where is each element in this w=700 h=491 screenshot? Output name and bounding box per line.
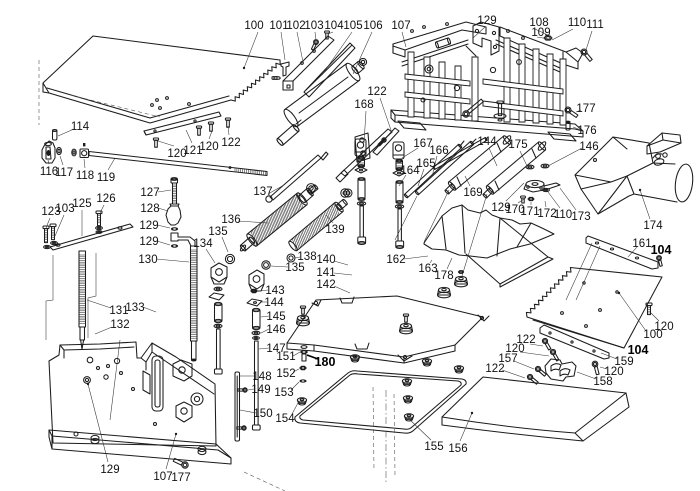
- label 155: [408, 418, 444, 453]
- roller 166: [415, 139, 476, 195]
- svg-text:134: 134: [193, 238, 213, 250]
- bracket 168: [355, 133, 370, 162]
- frame 107 body: [391, 22, 583, 141]
- label 120: [600, 366, 624, 378]
- sleeve 134s: [215, 302, 223, 322]
- label 129: [473, 15, 497, 38]
- gib strip 150: [235, 372, 240, 441]
- nut 143: [251, 289, 257, 292]
- svg-text:156: 156: [448, 443, 467, 455]
- svg-text:128: 128: [140, 203, 159, 215]
- roller 165: [404, 141, 464, 198]
- crank rod 129/130 top: [171, 233, 195, 246]
- svg-text:144: 144: [264, 297, 284, 309]
- screw 122d: [542, 338, 551, 350]
- label 122: [485, 363, 525, 378]
- svg-text:151: 151: [276, 351, 295, 363]
- svg-text:110: 110: [568, 17, 586, 29]
- knife bar 159: [540, 325, 609, 359]
- washer 129a: [171, 227, 178, 230]
- threaded post 131: [79, 251, 86, 349]
- knife bar 121: [144, 112, 221, 135]
- svg-text:145: 145: [266, 311, 285, 323]
- label 136: [221, 214, 268, 226]
- label 157: [498, 353, 534, 369]
- svg-text:153: 153: [274, 387, 293, 399]
- screw 127: [171, 178, 178, 204]
- label 161: [628, 238, 652, 257]
- svg-text:176: 176: [577, 125, 596, 137]
- svg-text:162: 162: [386, 254, 405, 266]
- label 146: [548, 141, 599, 166]
- svg-text:161: 161: [632, 238, 651, 250]
- label 107: [391, 20, 410, 47]
- svg-text:142: 142: [316, 279, 335, 291]
- label 111: [586, 19, 604, 50]
- screw 157s: [535, 366, 546, 376]
- mount 163b: [438, 287, 451, 297]
- label 151: [276, 351, 300, 363]
- label 118: [76, 159, 94, 182]
- cover plate 105: [304, 43, 355, 97]
- ring 135a: [225, 254, 234, 263]
- label 127: [140, 187, 171, 199]
- label 110: [548, 192, 572, 221]
- svg-text:105: 105: [343, 20, 362, 32]
- svg-text:144: 144: [477, 136, 497, 148]
- foot 155c: [404, 414, 413, 421]
- washer 117a: [57, 147, 62, 154]
- svg-text:136: 136: [221, 214, 240, 226]
- washer 138b: [341, 189, 349, 197]
- label 100: [619, 293, 663, 341]
- svg-text:140: 140: [316, 254, 335, 266]
- label 134: [193, 238, 215, 263]
- svg-text:130: 130: [138, 254, 157, 266]
- svg-text:129: 129: [477, 15, 496, 27]
- screw 104a: [325, 31, 330, 39]
- svg-text:164: 164: [400, 165, 420, 177]
- label 162: [386, 254, 428, 266]
- svg-text:178: 178: [434, 270, 453, 282]
- leader 180 bold: [307, 355, 318, 359]
- svg-text:177: 177: [171, 472, 190, 484]
- label 171: [520, 202, 539, 218]
- label 166: [429, 145, 448, 177]
- svg-text:152: 152: [276, 368, 295, 380]
- label 114: [58, 121, 90, 136]
- label 120: [505, 343, 549, 356]
- svg-text:120: 120: [199, 141, 218, 153]
- washer 129r: [526, 165, 534, 169]
- label 142: [316, 279, 350, 293]
- stud 180: [300, 346, 308, 361]
- washer ring left: [344, 189, 352, 197]
- screw 122a: [225, 118, 230, 127]
- svg-text:173: 173: [571, 211, 590, 223]
- bolt 111: [581, 49, 592, 61]
- screw 149a: [238, 388, 247, 392]
- rod 119: [89, 152, 267, 176]
- label 158: [577, 372, 613, 388]
- label 163: [418, 260, 437, 275]
- label 178: [434, 258, 453, 282]
- svg-text:148: 148: [252, 371, 271, 383]
- label 170: [505, 199, 524, 216]
- bolt 148: [215, 329, 223, 374]
- svg-text:100: 100: [643, 329, 662, 341]
- label 144: [260, 297, 284, 309]
- bracket 122p: [373, 128, 399, 155]
- threaded post 130: [191, 246, 198, 361]
- stud 176: [566, 121, 570, 130]
- svg-text:132: 132: [110, 319, 129, 331]
- svg-text:117: 117: [55, 167, 73, 179]
- bolt 126: [96, 211, 103, 233]
- plate 134p: [209, 293, 224, 300]
- roller 139: [288, 199, 348, 252]
- label 177: [171, 472, 190, 484]
- label 119: [97, 158, 115, 184]
- label 103: [55, 203, 75, 236]
- foot 155f: [350, 355, 359, 362]
- svg-text:146: 146: [579, 141, 598, 153]
- label 165: [416, 158, 435, 186]
- label 133: [125, 302, 156, 314]
- label 129: [491, 183, 524, 214]
- bolt 103b: [50, 224, 56, 240]
- washer 129c: [171, 244, 178, 247]
- svg-text:129: 129: [100, 464, 119, 476]
- feed roller 175: [483, 141, 548, 199]
- label 132: [95, 319, 130, 334]
- svg-text:139: 139: [325, 224, 344, 236]
- bracket 158: [545, 359, 576, 381]
- foot 155a: [402, 379, 411, 386]
- washer 153w: [299, 379, 306, 382]
- label 169: [463, 176, 482, 199]
- sleeve 145: [253, 308, 261, 329]
- label 135: [208, 226, 228, 252]
- washer 123w: [44, 241, 58, 248]
- screw 170: [521, 196, 526, 203]
- foot 155e: [454, 366, 463, 373]
- svg-text:129: 129: [139, 220, 158, 232]
- ring 135b: [262, 261, 270, 269]
- label 103: [304, 20, 323, 40]
- bolt 147: [253, 341, 261, 430]
- svg-text:143: 143: [265, 285, 284, 297]
- screw 149b: [237, 426, 246, 430]
- label 122: [516, 334, 543, 346]
- screw 120r: [646, 303, 652, 315]
- svg-text:154: 154: [275, 413, 295, 425]
- label 172: [537, 201, 556, 220]
- screw 122c: [527, 374, 538, 384]
- svg-text:122: 122: [221, 137, 240, 149]
- clamp 154: [297, 398, 306, 405]
- label 120: [651, 313, 674, 333]
- svg-text:119: 119: [97, 172, 115, 184]
- svg-text:102: 102: [286, 20, 305, 32]
- screw 177r: [565, 107, 578, 118]
- svg-text:103: 103: [304, 20, 323, 32]
- bar 125: [50, 224, 133, 250]
- mount 151b on 142: [400, 314, 413, 334]
- label 150: [240, 408, 273, 420]
- table 100b (outfeed): [526, 268, 662, 349]
- label 153: [274, 382, 299, 399]
- svg-text:104: 104: [651, 243, 672, 257]
- svg-text:158: 158: [593, 376, 612, 388]
- svg-text:168: 168: [354, 99, 373, 111]
- screw 103a: [311, 40, 318, 51]
- washer 172b: [543, 188, 550, 191]
- svg-text:109: 109: [531, 27, 550, 39]
- svg-text:135: 135: [285, 262, 304, 274]
- label 146: [261, 324, 286, 336]
- label 154: [275, 403, 298, 425]
- label 120: [199, 131, 218, 153]
- screw 120f: [550, 349, 559, 361]
- side frame 107b: [49, 342, 231, 464]
- table 100 (infeed): [43, 36, 280, 123]
- mount 151a on 142: [297, 306, 310, 326]
- phantom boundary line: [39, 60, 120, 420]
- svg-text:100: 100: [244, 20, 263, 32]
- bracket 173 plate: [524, 180, 560, 192]
- label 135: [271, 262, 305, 274]
- svg-text:137: 137: [253, 186, 272, 198]
- chip plate 178: [424, 205, 554, 258]
- label 105: [322, 20, 363, 75]
- nut 171: [528, 197, 534, 200]
- mount plate 142: [287, 296, 489, 363]
- screw 120a: [153, 138, 158, 147]
- bar 161: [586, 236, 658, 269]
- label 145: [261, 311, 286, 323]
- label 156: [448, 413, 472, 455]
- washer 172w: [541, 164, 549, 168]
- dust chute 174: [575, 133, 695, 214]
- svg-text:141: 141: [316, 267, 335, 279]
- svg-text:122: 122: [485, 363, 504, 375]
- label 129: [139, 220, 170, 232]
- label 177: [576, 103, 596, 115]
- label 117: [55, 156, 73, 179]
- knob 128: [166, 204, 181, 225]
- screw 104s: [657, 256, 663, 267]
- washer 138a: [307, 184, 316, 193]
- cover chute 156: [442, 377, 629, 441]
- bolt 101: [281, 62, 289, 76]
- label 140: [316, 254, 348, 266]
- svg-text:114: 114: [71, 121, 90, 133]
- tie rod 144r: [433, 137, 488, 169]
- stud 175 in frame: [494, 101, 506, 121]
- screw 120e: [592, 361, 599, 375]
- svg-text:125: 125: [72, 198, 91, 210]
- label 122: [367, 86, 392, 133]
- label 129: [88, 384, 120, 476]
- svg-text:129: 129: [139, 236, 158, 248]
- label 152: [276, 368, 299, 380]
- bolt 123: [43, 226, 49, 243]
- folded chute panel below 178: [466, 218, 553, 287]
- svg-text:127: 127: [140, 187, 159, 199]
- cutterhead 136: [239, 184, 318, 251]
- washer 146w: [252, 331, 260, 339]
- screw 177s: [173, 458, 188, 468]
- svg-text:175: 175: [508, 139, 527, 151]
- washer 134w2: [214, 324, 222, 328]
- label 121: [183, 130, 202, 157]
- label 144: [477, 136, 497, 166]
- label 137: [253, 185, 284, 198]
- svg-text:118: 118: [76, 170, 94, 182]
- svg-text:110: 110: [554, 209, 572, 221]
- label 123: [41, 206, 60, 228]
- svg-text:106: 106: [363, 20, 382, 32]
- label 110: [552, 17, 586, 40]
- svg-text:133: 133: [125, 302, 144, 314]
- label 125: [72, 198, 91, 236]
- bearing block 134b: [249, 270, 264, 291]
- label 104: [628, 343, 649, 357]
- label 130: [138, 254, 189, 266]
- clamp on duct: [653, 153, 667, 166]
- column 106: [276, 58, 366, 146]
- washer 134w: [214, 287, 222, 291]
- nut 118: [80, 143, 89, 158]
- label 143: [259, 285, 285, 297]
- label 120: [158, 141, 187, 160]
- label 141: [316, 267, 352, 279]
- label 174: [640, 190, 663, 232]
- svg-text:169: 169: [463, 187, 482, 199]
- washer 117b: [72, 149, 76, 156]
- label 139: [325, 215, 344, 236]
- screw 144 diag in frame: [463, 99, 484, 117]
- screw 121s: [196, 126, 201, 135]
- label 109: [531, 27, 550, 39]
- label 102: [286, 20, 305, 62]
- label 148: [240, 371, 272, 383]
- hanger block 164b: [393, 142, 405, 249]
- label 122: [221, 126, 240, 149]
- foot 155d: [422, 359, 431, 366]
- svg-text:166: 166: [429, 145, 448, 157]
- screw 120b: [208, 122, 213, 131]
- label 108: [529, 17, 550, 36]
- svg-text:149: 149: [251, 384, 270, 396]
- label 106: [353, 20, 383, 74]
- svg-text:177: 177: [576, 103, 595, 115]
- label 107: [153, 434, 176, 483]
- label 159: [601, 353, 634, 368]
- svg-text:180: 180: [315, 355, 336, 369]
- label 116: [40, 160, 58, 178]
- svg-text:122: 122: [367, 86, 386, 98]
- hanger block 164a: [355, 139, 367, 245]
- label 128: [140, 203, 168, 215]
- svg-text:146: 146: [266, 324, 285, 336]
- plate 144p: [247, 299, 262, 306]
- label 149: [248, 384, 271, 396]
- svg-text:126: 126: [96, 193, 115, 205]
- bracket 167: [336, 129, 392, 182]
- svg-text:150: 150: [253, 408, 272, 420]
- pin 114: [53, 130, 57, 141]
- label 173: [560, 188, 591, 223]
- svg-text:135: 135: [208, 226, 227, 238]
- label 164: [399, 165, 420, 186]
- ring 138c: [287, 254, 295, 262]
- mount 146b: [455, 271, 468, 287]
- svg-text:155: 155: [424, 441, 443, 453]
- svg-text:107: 107: [391, 20, 410, 32]
- svg-text:104: 104: [324, 20, 344, 32]
- label 131: [87, 300, 129, 317]
- base pan 155: [295, 371, 466, 433]
- leader end dots: [87, 67, 641, 435]
- axis line rollers to plate: [395, 190, 487, 276]
- label 104: [651, 243, 672, 257]
- label 180: [315, 355, 336, 369]
- svg-text:174: 174: [643, 220, 663, 232]
- nut 151: [300, 366, 306, 369]
- nut 108 109: [544, 36, 552, 40]
- label 147: [259, 343, 286, 355]
- rod 137: [266, 152, 328, 202]
- svg-text:104: 104: [628, 343, 649, 357]
- svg-text:111: 111: [586, 19, 603, 31]
- bearing block 134a: [211, 263, 227, 284]
- label 167: [402, 138, 433, 158]
- label 168: [354, 99, 373, 143]
- fence bar 102: [272, 36, 334, 90]
- label 104: [324, 20, 344, 34]
- label 100: [244, 20, 264, 68]
- label 175: [508, 139, 528, 168]
- crank handle 116: [42, 141, 55, 163]
- label 138: [295, 251, 317, 263]
- foot 155b: [403, 396, 412, 403]
- leader lines under 161: [566, 243, 600, 300]
- centerline dashdot: [244, 387, 395, 491]
- label 129: [139, 236, 170, 248]
- feed roller 169: [445, 135, 513, 195]
- label 126: [96, 193, 115, 213]
- svg-text:107: 107: [153, 471, 172, 483]
- label 176: [573, 125, 597, 137]
- label 101: [269, 20, 288, 60]
